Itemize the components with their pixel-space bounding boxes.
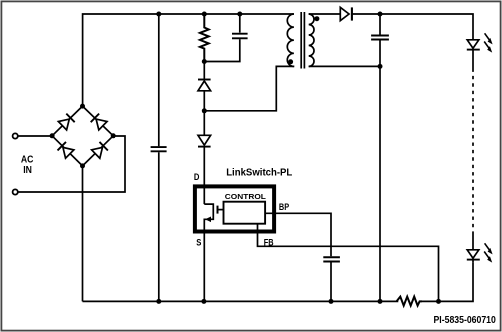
node: bridge left vertex bbox=[50, 133, 55, 138]
wire: output diode to LED string top bbox=[352, 14, 473, 40]
label AC IN bbox=[21, 154, 34, 175]
capacitor C1 bulk (plates) bbox=[151, 147, 167, 151]
wire: bridge bottom to ground rail bbox=[82, 166, 84, 301]
MOSFET internal drain-source path bbox=[204, 204, 213, 301]
wire: bottom rail left of sense resistor bbox=[83, 300, 399, 302]
node: top rail / clamp cap junction bbox=[237, 12, 242, 17]
wire: bottom rail right of sense resistor bbox=[422, 262, 473, 301]
node: bridge bottom vertex bbox=[80, 163, 85, 168]
wire: output cap top lead bbox=[379, 14, 381, 35]
resistor R1 clamp (vertical zigzag) bbox=[200, 14, 209, 62]
svg-text:D: D bbox=[194, 171, 200, 182]
wire: output cap bottom / return line bbox=[379, 41, 381, 302]
node: bridge top vertex bbox=[80, 104, 85, 109]
svg-text:BP: BP bbox=[279, 202, 290, 212]
node: bridge right vertex bbox=[111, 133, 116, 138]
resistor R2 current sense (horizontal zigzag) bbox=[397, 297, 423, 306]
node: bottom rail / source pin junction bbox=[201, 299, 206, 304]
bridge side bottom-right with diode bbox=[83, 136, 114, 166]
wire: gate lead bbox=[218, 209, 224, 211]
wire: bypass cap bottom lead bbox=[330, 263, 332, 302]
svg-text:IN: IN bbox=[23, 164, 32, 175]
svg-text:FB: FB bbox=[264, 238, 274, 248]
LED1 arrowheads bbox=[487, 38, 492, 263]
capacitor C4 bypass (plates) bbox=[323, 257, 340, 261]
diode D1 output rectifier bbox=[340, 7, 352, 20]
wire: bulk cap top lead bbox=[158, 14, 160, 146]
wire: clamp node to diode D2 bbox=[203, 62, 205, 80]
node A: clamp diode / primary junction bbox=[202, 108, 207, 113]
MOSFET gate bar bbox=[217, 206, 219, 214]
svg-text:PI-5835-060710: PI-5835-060710 bbox=[434, 314, 496, 326]
wire: AC bottom terminal to bridge right vertex bbox=[19, 136, 126, 192]
capacitor C2 clamp (plates) bbox=[232, 34, 248, 39]
diode D3 series (cathode down) bbox=[198, 135, 211, 146]
wire: FB pin to sense node bbox=[258, 224, 439, 302]
node: top rail / clamp resistor junction bbox=[202, 12, 207, 17]
wire: AC top terminal to bridge bbox=[19, 135, 53, 137]
wire: D2 to node A bbox=[203, 91, 205, 136]
AC input terminal (bottom) bbox=[13, 189, 18, 194]
node: transformer primary polarity dot bbox=[288, 59, 293, 64]
wire: secondary bottom to output node bbox=[309, 65, 380, 67]
capacitor C3 output (plates) bbox=[371, 36, 389, 40]
diode D2 clamp (cathode up) bbox=[198, 80, 211, 91]
wire: LED1 cathode lead bbox=[472, 50, 474, 69]
svg-text:AC: AC bbox=[21, 154, 34, 165]
wire: bulk cap bottom lead bbox=[158, 152, 160, 301]
wire: clamp cap top lead bbox=[239, 14, 241, 33]
bridge side bottom-left with diode bbox=[52, 136, 82, 166]
transformer T1 secondary winding bbox=[309, 14, 314, 66]
wire: clamp cap bottom lead bbox=[204, 39, 240, 61]
wire: BP pin to bypass cap bbox=[265, 213, 331, 256]
node: output diode / cap junction bbox=[378, 12, 383, 17]
wire: D3 to drain pin bbox=[203, 147, 205, 205]
svg-text:LinkSwitch-PL: LinkSwitch-PL bbox=[226, 167, 292, 178]
LED2 arrowheads bbox=[488, 248, 493, 255]
bridge side top-right with diode bbox=[83, 106, 114, 136]
node: transformer secondary polarity dot bbox=[314, 16, 319, 21]
wire: LED2 cathode lead bbox=[472, 260, 474, 263]
svg-text:S: S bbox=[196, 237, 201, 248]
MOSFET source arrow bbox=[205, 217, 211, 223]
LED2 (bottom of string) bbox=[467, 250, 480, 260]
transformer T1 primary winding bbox=[287, 14, 294, 66]
CONTROL block bbox=[224, 202, 266, 224]
transformer T1 core bbox=[301, 12, 304, 69]
wire: top rail bbox=[83, 14, 294, 106]
bridge rectifier BR1 bbox=[52, 106, 113, 166]
node: bottom rail / bulk cap junction bbox=[156, 299, 161, 304]
node: clamp RC junction bbox=[202, 59, 207, 64]
node: bottom rail / bypass cap junction bbox=[329, 299, 334, 304]
svg-text:CONTROL: CONTROL bbox=[225, 192, 266, 200]
node: bottom rail / feedback junction bbox=[436, 299, 441, 304]
LED1 (top of string) bbox=[467, 40, 480, 50]
wire: LED string dashed continuation bbox=[472, 69, 474, 232]
wire: node A to transformer primary bottom bbox=[204, 66, 294, 110]
wire: LED2 anode lead bbox=[472, 232, 474, 250]
LED2 emission arrows bbox=[484, 243, 490, 259]
node: output cap / secondary return junction bbox=[378, 64, 383, 69]
wire: secondary top to output diode bbox=[309, 13, 341, 15]
bridge side top-left with diode bbox=[52, 106, 82, 136]
node: top rail / bulk cap junction bbox=[156, 12, 161, 17]
node: bottom rail / output return junction bbox=[378, 299, 383, 304]
op-amp U1 LinkSwitch-PL outline box bbox=[195, 186, 274, 231]
LED1 emission arrows bbox=[484, 33, 490, 50]
AC input terminal (top) bbox=[13, 133, 18, 138]
